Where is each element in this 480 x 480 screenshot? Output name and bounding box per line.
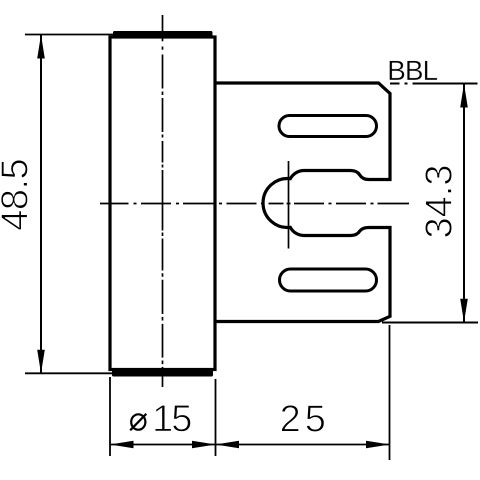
BBL reference line <box>390 83 478 85</box>
dim 25 right extension line <box>389 325 391 460</box>
bottom dimension line <box>110 444 390 446</box>
dim 34.3 arrow down <box>460 299 468 323</box>
dim ø15 diameter symbol <box>131 414 145 429</box>
dim 48.5 top extension line <box>25 34 113 36</box>
dim 48.5 arrow up <box>37 35 45 59</box>
vertical center line of cylinder <box>162 15 164 387</box>
horizontal center line <box>100 203 409 205</box>
dim ø15 left extension line <box>109 377 111 456</box>
dim 48.5 arrow down <box>37 350 45 374</box>
shared extension line ø15/25 <box>215 379 217 456</box>
dim 48.5 bottom extension line <box>25 372 118 374</box>
upper mounting slot <box>279 116 377 137</box>
hinge leaf bracket outline <box>215 83 390 322</box>
dim 34.3 bottom extension line <box>382 322 478 324</box>
dim ø15 arrow right <box>192 441 216 449</box>
dim 48.5 dimension line <box>40 35 42 373</box>
dim 34.3 dimension line <box>463 84 465 322</box>
dim 25 arrow left <box>216 441 240 449</box>
dim ø15 digits <box>155 405 191 432</box>
dim 25 arrow right <box>366 441 390 449</box>
dim 48.5 label <box>1 160 28 230</box>
dim 34.3 label <box>425 166 452 237</box>
dim 25 label <box>282 405 325 432</box>
top end cap <box>113 31 213 38</box>
BBL label <box>390 61 438 80</box>
dim 34.3 arrow up <box>460 84 468 108</box>
dim ø15 arrow left <box>110 441 134 449</box>
keyhole arc center mark <box>288 161 290 249</box>
bottom end cap <box>112 369 213 377</box>
hinge knuckle cylinder body <box>110 37 215 370</box>
lower mounting slot <box>280 269 377 291</box>
